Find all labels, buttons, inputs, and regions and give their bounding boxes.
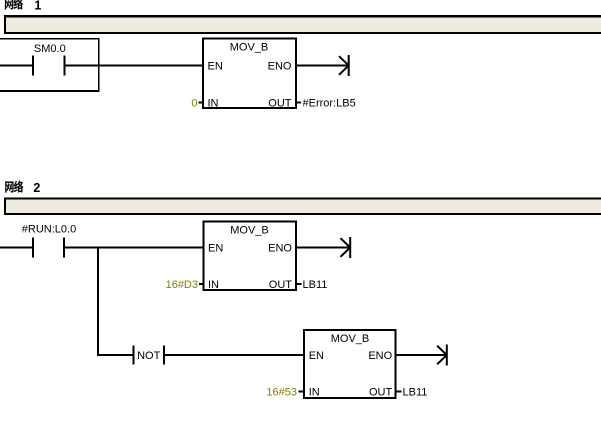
contact #RUN:L0.0 bbox=[33, 238, 64, 258]
wire left rail to contact bbox=[0, 65, 32, 67]
svg-text:SM0.0: SM0.0 bbox=[34, 43, 66, 55]
svg-text:#Error:LB5: #Error:LB5 bbox=[303, 97, 356, 109]
tick OUT U3 bbox=[397, 390, 402, 392]
box MOV_B U3 (network 2 branch row) bbox=[304, 330, 395, 398]
svg-text:0: 0 bbox=[191, 97, 197, 109]
svg-text:LB11: LB11 bbox=[403, 386, 428, 398]
svg-text:1: 1 bbox=[34, 0, 41, 13]
svg-text:#RUN:L0.0: #RUN:L0.0 bbox=[22, 223, 76, 235]
box MOV_B U2 (network 2 top row) bbox=[204, 222, 297, 290]
svg-text:IN: IN bbox=[309, 386, 320, 398]
tick IN U1 bbox=[199, 102, 203, 104]
tick OUT U2 bbox=[297, 283, 302, 285]
wire ENO U1 to arrow bbox=[296, 65, 348, 67]
svg-text:IN: IN bbox=[208, 279, 219, 291]
svg-text:ENO: ENO bbox=[368, 350, 392, 362]
svg-text:2: 2 bbox=[33, 181, 40, 195]
svg-text:MOV_B: MOV_B bbox=[331, 333, 370, 345]
svg-text:EN: EN bbox=[309, 350, 324, 362]
network 1 title "网络 1" bbox=[5, 0, 41, 13]
network 1 comment bar bbox=[4, 15, 601, 34]
wire ENO U3 to arrow bbox=[397, 354, 447, 356]
svg-text:MOV_B: MOV_B bbox=[230, 41, 269, 53]
svg-text:ENO: ENO bbox=[268, 243, 292, 255]
svg-text:NOT: NOT bbox=[137, 350, 161, 362]
wire NOT contact to box U3 bbox=[165, 354, 304, 356]
wire contact to box U2 bbox=[65, 247, 203, 249]
svg-text:OUT: OUT bbox=[369, 386, 393, 398]
svg-text:ENO: ENO bbox=[268, 61, 292, 73]
contact NOT bbox=[134, 346, 164, 365]
wire left rail to contact (network 2) bbox=[0, 247, 32, 249]
svg-text:OUT: OUT bbox=[268, 97, 292, 109]
svg-text:16#D3: 16#D3 bbox=[166, 279, 198, 291]
network 2 title "网络 2" bbox=[5, 181, 40, 195]
svg-text:IN: IN bbox=[208, 97, 219, 109]
branch junction vertical wire down bbox=[97, 248, 99, 356]
open branch arrow (network 2 branch row) bbox=[437, 345, 447, 366]
tick OUT U1 bbox=[296, 102, 301, 104]
contact SM0.0 bbox=[33, 56, 65, 76]
open branch arrow (network 2 top row) bbox=[341, 237, 351, 258]
open branch arrow (network 1) bbox=[339, 55, 349, 76]
svg-text:LB11: LB11 bbox=[303, 279, 328, 291]
wire contact to box U1 bbox=[66, 65, 203, 67]
box MOV_B U1 (network 1) bbox=[203, 38, 296, 108]
svg-text:EN: EN bbox=[208, 61, 223, 73]
svg-text:OUT: OUT bbox=[269, 279, 293, 291]
network 2 comment bar bbox=[4, 197, 601, 215]
svg-text:16#53: 16#53 bbox=[266, 386, 297, 398]
selection cursor box around contact SM0.0 bbox=[0, 39, 99, 91]
wire ENO U2 to arrow bbox=[297, 247, 350, 249]
tick IN U2 bbox=[199, 283, 203, 285]
svg-text:MOV_B: MOV_B bbox=[230, 225, 269, 237]
wire branch row to NOT contact bbox=[97, 354, 133, 356]
tick IN U3 bbox=[299, 390, 304, 392]
svg-text:EN: EN bbox=[208, 243, 223, 255]
